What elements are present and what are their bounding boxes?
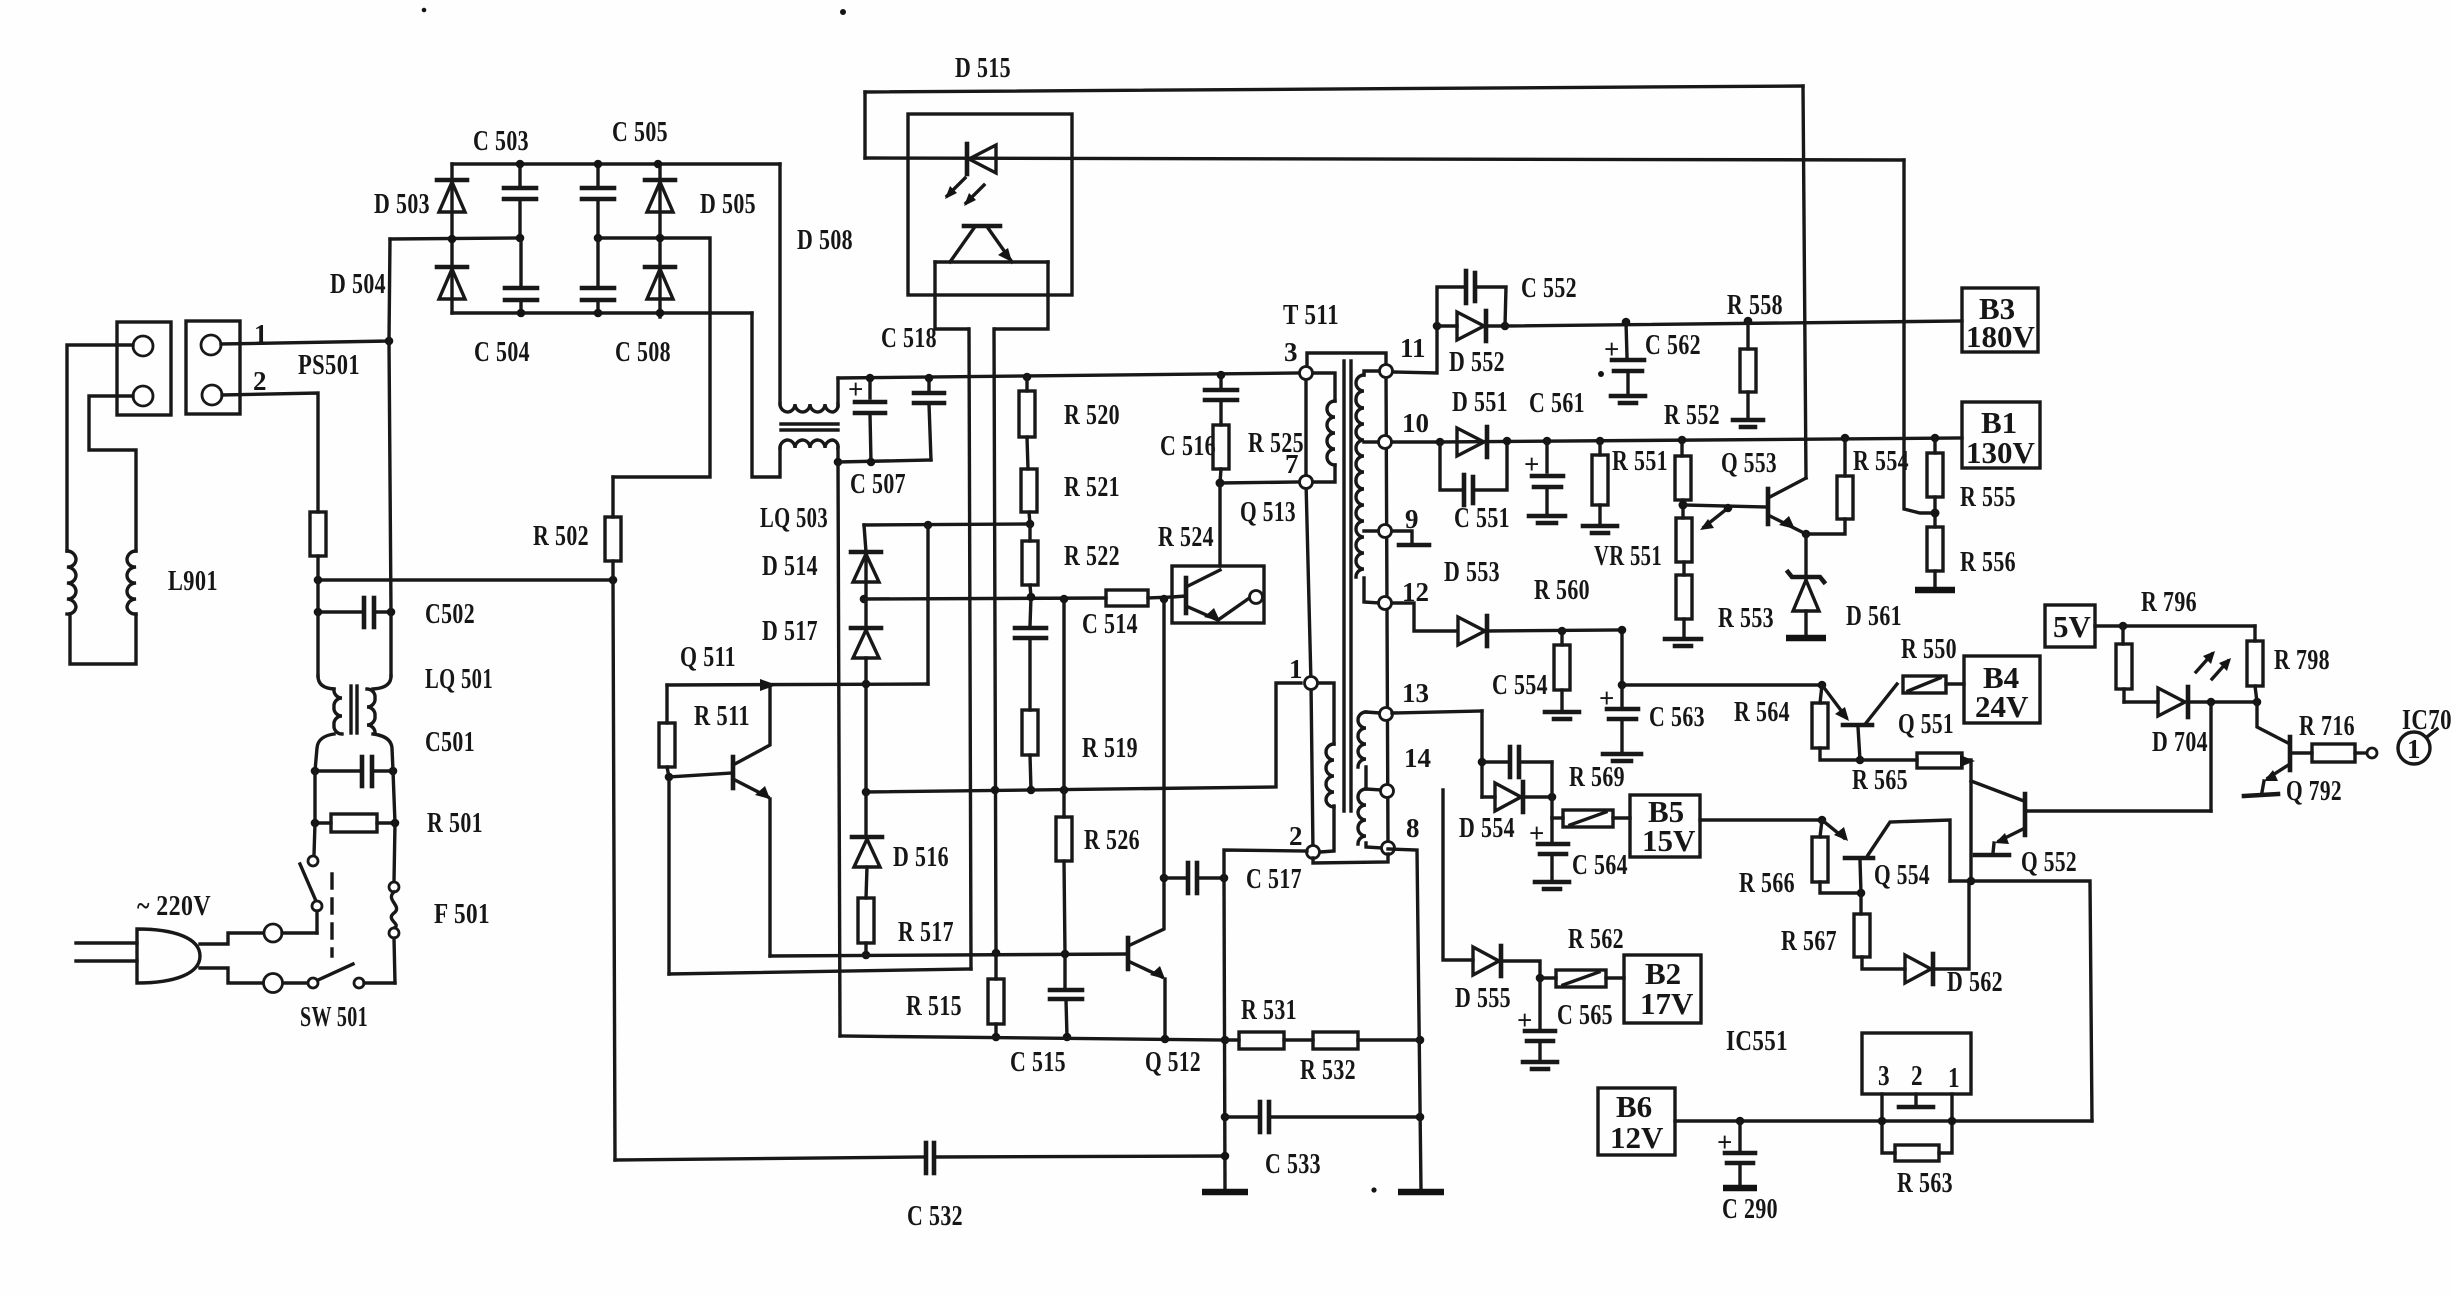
svg-text:2: 2 <box>1289 821 1303 851</box>
svg-text:C 552: C 552 <box>1521 272 1577 304</box>
wire pin13 out <box>1392 711 1482 713</box>
capacitor C563 electrolytic <box>1599 683 1641 761</box>
svg-text:C 514: C 514 <box>1082 608 1138 640</box>
svg-text:13: 13 <box>1402 678 1429 708</box>
svg-text:R 515: R 515 <box>906 990 962 1022</box>
resistor R502 <box>605 517 621 561</box>
svg-text:D 514: D 514 <box>762 550 818 582</box>
node D514/D517 <box>860 595 869 604</box>
IC551 box <box>1862 1033 1971 1094</box>
svg-text:D 504: D 504 <box>330 268 386 300</box>
wire C502 left down to LQ501 <box>316 612 319 676</box>
node pin7 feed <box>1216 479 1225 488</box>
svg-text:C 516: C 516 <box>1160 430 1216 462</box>
svg-text:17V: 17V <box>1640 986 1694 1021</box>
svg-text:R 569: R 569 <box>1569 761 1625 793</box>
svg-text:12V: 12V <box>1610 1120 1664 1155</box>
wire pin11 out <box>1393 326 1437 373</box>
svg-text:R 796: R 796 <box>2141 586 2197 618</box>
5V top line <box>2095 624 2255 627</box>
svg-text:R 532: R 532 <box>1300 1054 1356 1086</box>
fusible resistor R569 <box>1552 810 1630 827</box>
vertical x1225 <box>1224 878 1225 1190</box>
svg-text:C 561: C 561 <box>1529 387 1585 419</box>
line filter LQ501 <box>315 676 393 771</box>
svg-text:C 562: C 562 <box>1645 329 1701 361</box>
svg-text:D 552: D 552 <box>1449 346 1505 378</box>
transistor Q512 <box>1128 599 1169 1043</box>
wire corner to D514 <box>864 525 866 552</box>
capacitor C516 <box>1205 375 1237 425</box>
svg-text:D 555: D 555 <box>1455 982 1511 1014</box>
LED D704 <box>2124 687 2261 717</box>
svg-text:R 566: R 566 <box>1739 867 1795 899</box>
terminal circled 1 <box>2398 729 2437 764</box>
IC551 legs <box>1878 1094 1957 1153</box>
resistor R524 (horizontal) <box>1106 590 1148 606</box>
resistor R526 <box>1056 790 1072 958</box>
wire node to IC551 drop <box>1950 881 2092 1121</box>
svg-text:D 503: D 503 <box>374 188 430 220</box>
svg-text:8: 8 <box>1406 813 1420 843</box>
svg-text:C 504: C 504 <box>474 336 530 368</box>
resistor R556 <box>1915 527 1955 590</box>
wire bus corner down <box>863 92 866 158</box>
line B (base feedback y970) <box>669 969 971 974</box>
capacitor over D554 <box>1482 747 1552 777</box>
svg-text:R 524: R 524 <box>1158 521 1214 553</box>
diode D554 <box>1482 782 1556 812</box>
resistor R522 <box>1022 524 1038 597</box>
svg-text:C 564: C 564 <box>1572 849 1628 881</box>
svg-text:14: 14 <box>1404 743 1431 773</box>
wire C501 to R501 right <box>393 771 395 823</box>
transistor Q513 box <box>1172 566 1264 623</box>
transistor Q552 <box>1971 781 2211 855</box>
svg-text:Q 554: Q 554 <box>1874 859 1930 891</box>
node Q554 collector rail <box>1967 877 1976 886</box>
svg-text:VR 551: VR 551 <box>1594 540 1662 572</box>
pin 9 <box>1379 525 1392 538</box>
node dot at R502 bottom <box>609 576 618 585</box>
node R796 top <box>2119 622 2128 631</box>
resistor R565 <box>1860 753 1975 768</box>
diode D504 <box>437 239 467 313</box>
wire C507 bottom rail <box>838 460 931 462</box>
pin 11 <box>1380 365 1393 378</box>
capacitor C554 <box>1545 631 1579 719</box>
node LQ503 out <box>834 458 843 467</box>
diode D551 <box>1457 427 1487 457</box>
box B3 <box>1962 288 2038 354</box>
wire to pin 7 <box>1220 482 1299 483</box>
svg-text:5V: 5V <box>2053 609 2092 644</box>
resistor R563 <box>1895 1145 1939 1161</box>
pin 13 <box>1380 708 1393 721</box>
diode D553 <box>1458 616 1622 646</box>
wire down to C502 <box>316 580 319 612</box>
svg-text:R 565: R 565 <box>1852 764 1908 796</box>
long line from LED bus down <box>1904 160 1935 513</box>
B5 bus to Q554 <box>1700 818 1822 821</box>
svg-text:C502: C502 <box>425 598 475 630</box>
svg-text:C501: C501 <box>425 726 475 758</box>
svg-text:1: 1 <box>2407 734 2421 764</box>
transistor Q553 <box>1683 478 1845 538</box>
svg-text:D 508: D 508 <box>797 224 853 256</box>
T511 primary winding (3-7) <box>1311 373 1335 482</box>
svg-text:R 519: R 519 <box>1082 732 1138 764</box>
resistor R558 <box>1733 317 1763 427</box>
svg-text:Q 553: Q 553 <box>1721 447 1777 479</box>
resistor R716 <box>2312 744 2377 762</box>
line y684 (Q511 collector line) <box>667 684 928 685</box>
T511 secondary winding (11-10-9-12) <box>1356 371 1380 603</box>
capacitor C501 <box>311 757 398 786</box>
svg-text:SW 501: SW 501 <box>300 1001 368 1033</box>
wire R502 top <box>611 477 614 517</box>
capacitor C290 electrolytic <box>1717 1117 1757 1188</box>
ground at pin 9 <box>1392 531 1429 545</box>
node leg2 on y790 <box>991 786 1000 795</box>
svg-text:Q 513: Q 513 <box>1240 496 1296 528</box>
LED feedback line <box>865 158 1904 160</box>
svg-text:R 564: R 564 <box>1734 696 1790 728</box>
svg-text:1: 1 <box>1289 654 1303 684</box>
capacitor C552 bypass loop <box>1437 271 1506 326</box>
junction arrow on y684 <box>760 679 777 691</box>
node line to R502 <box>318 578 613 581</box>
node bus B at R520 <box>1023 373 1032 382</box>
bridge bottom bus <box>452 311 752 314</box>
zener D561 <box>1786 534 1826 638</box>
transistor Q551 <box>1818 681 1897 760</box>
long left vertical to C532 <box>613 580 615 1160</box>
fuse F501 <box>389 823 399 983</box>
line A (emitter/base rail y955) <box>770 954 1127 956</box>
pin 8 <box>1382 842 1395 855</box>
degaussing coil L901 <box>67 551 136 664</box>
diode D503 <box>437 164 467 239</box>
fusible resistor R550 <box>1903 676 1964 693</box>
wire LQ503 bottom right down <box>836 448 839 462</box>
wire PS501 pin1 to bridge rail <box>221 341 389 344</box>
wire pin13 down leg <box>1480 711 1483 797</box>
top feedback bus <box>865 86 1803 92</box>
svg-text:2: 2 <box>1911 1060 1923 1092</box>
svg-text:T 511: T 511 <box>1283 299 1339 331</box>
resistor R520 <box>1019 377 1035 469</box>
wire L901 top loop <box>67 345 133 551</box>
svg-text:R 562: R 562 <box>1568 923 1624 955</box>
wire bottom bus down to LQ503 <box>752 313 780 477</box>
resistor R796 <box>2116 626 2132 702</box>
phototransistor <box>950 226 1012 262</box>
long feedback line to top bus <box>1803 86 1806 478</box>
svg-text:C 551: C 551 <box>1454 502 1510 534</box>
resistor R553 <box>1665 562 1701 646</box>
line C (ground return y1037) <box>840 1036 1225 1040</box>
svg-text:D 704: D 704 <box>2152 726 2208 758</box>
resistor R521 <box>1021 469 1037 524</box>
vertical x928 <box>926 525 929 684</box>
svg-text:R 555: R 555 <box>1960 481 2016 513</box>
pin 1 <box>1305 677 1318 690</box>
svg-text:R 551: R 551 <box>1612 445 1668 477</box>
resistor R551 <box>1583 437 1617 533</box>
diode D552 <box>1437 311 1505 341</box>
pin 14 <box>1381 785 1394 798</box>
optocoupler box <box>908 114 1072 295</box>
connector block PS501 <box>186 321 240 414</box>
svg-text:R 511: R 511 <box>694 700 750 732</box>
bridge mid-left rail <box>390 238 521 239</box>
switch SW501 pole 1 <box>300 856 322 933</box>
resistor R554 <box>1837 434 1853 519</box>
resistor R798 <box>2247 626 2263 702</box>
svg-text:R 520: R 520 <box>1064 399 1120 431</box>
svg-text:R 522: R 522 <box>1064 540 1120 572</box>
svg-text:R 554: R 554 <box>1853 445 1909 477</box>
capacitor C515 <box>1050 954 1082 1041</box>
node D552 cathode <box>1501 322 1510 331</box>
svg-text:Q 551: Q 551 <box>1898 708 1954 740</box>
wire R524 to Q513 box <box>1148 597 1172 598</box>
diode D517 <box>851 599 881 792</box>
diode D555 <box>1473 946 1544 982</box>
pin 3 <box>1300 367 1313 380</box>
node cap top <box>1478 758 1487 767</box>
svg-text:Q 792: Q 792 <box>2286 775 2342 807</box>
svg-text:R 560: R 560 <box>1534 574 1590 606</box>
svg-text:15V: 15V <box>1642 823 1696 858</box>
resistor R519 <box>1022 710 1038 790</box>
line y525 (D514 top) <box>864 524 1031 525</box>
capacitor C502 <box>314 598 396 627</box>
svg-text:C 532: C 532 <box>907 1200 963 1232</box>
capacitor C507 electrolytic <box>848 374 885 467</box>
potentiometer VR551 <box>1676 508 1728 562</box>
svg-text:C 554: C 554 <box>1492 669 1548 701</box>
svg-text:7: 7 <box>1285 449 1299 479</box>
capacitor C508 <box>582 238 614 317</box>
svg-text:Q 512: Q 512 <box>1145 1046 1201 1078</box>
node x928 top <box>924 521 933 530</box>
wire mains right vertical (PS1 node down) <box>389 239 391 676</box>
svg-text:R 526: R 526 <box>1084 824 1140 856</box>
T511 top bridge <box>1307 353 1386 373</box>
B3 rail <box>1505 321 1962 326</box>
node C563 <box>1618 681 1627 690</box>
svg-text:D 505: D 505 <box>700 188 756 220</box>
svg-text:D 515: D 515 <box>955 52 1011 84</box>
node R519 bottom <box>1027 786 1036 795</box>
svg-text:R 550: R 550 <box>1901 633 1957 665</box>
ground under x1225 <box>1202 1189 1248 1196</box>
T511 feedback winding (1-2) <box>1315 683 1334 852</box>
svg-text:C 290: C 290 <box>1722 1193 1778 1225</box>
svg-text:+: + <box>848 374 863 404</box>
transistor Q792 <box>2244 702 2312 796</box>
diode D562 <box>1905 881 1969 984</box>
wire pin2 to C517 node <box>1224 850 1307 878</box>
svg-text:D 553: D 553 <box>1444 556 1500 588</box>
node PS501-1 <box>385 337 394 346</box>
svg-text:C 505: C 505 <box>612 116 668 148</box>
T511 right pin rail <box>1386 371 1388 848</box>
svg-text:R 502: R 502 <box>533 520 589 552</box>
capacitor C532 <box>615 1143 1229 1173</box>
leg 2 of optocoupler <box>994 329 996 953</box>
svg-text:R 558: R 558 <box>1727 289 1783 321</box>
T511 secondary winding (13-14-8) <box>1358 712 1382 848</box>
transistor Q554 <box>1818 816 1950 893</box>
scan speck <box>422 8 427 13</box>
svg-text:C 565: C 565 <box>1557 999 1613 1031</box>
switch link dashes <box>330 874 333 956</box>
pedestal collar <box>935 262 1048 329</box>
svg-text:24V: 24V <box>1975 689 2029 724</box>
wire down into Q513 box <box>1218 483 1221 566</box>
wire top bus down to LQ503 <box>778 164 781 404</box>
svg-text:C 563: C 563 <box>1649 701 1705 733</box>
wire pin2 to pin8 U <box>1313 854 1388 863</box>
capacitor C514 <box>1015 597 1046 710</box>
wire Q511 base net down (x669) <box>667 777 670 974</box>
scan speck <box>840 9 846 15</box>
wire R502 to node <box>611 561 614 580</box>
capacitor C503 <box>504 160 536 243</box>
wire R501 left down to switch <box>314 823 315 855</box>
node x1064 on y599 <box>1060 595 1069 604</box>
big vertical rail from LQ503 node down <box>838 462 840 1036</box>
resistor R532 <box>1313 1032 1420 1049</box>
svg-text:C 533: C 533 <box>1265 1148 1321 1180</box>
node R532 right <box>1416 1036 1425 1045</box>
pin 12 <box>1379 597 1392 610</box>
resistor (inrush) on pin2 line <box>310 512 326 556</box>
choke LQ503 <box>780 404 838 448</box>
T511 core <box>1344 361 1351 811</box>
fusible resistor R562 <box>1540 970 1624 987</box>
svg-text:R 563: R 563 <box>1897 1167 1953 1199</box>
resistor R567 <box>1854 893 1905 969</box>
pin 10 <box>1379 436 1392 449</box>
resistor R501 <box>311 814 400 832</box>
svg-text:R 501: R 501 <box>427 807 483 839</box>
svg-text:D 551: D 551 <box>1452 386 1508 418</box>
bridge mid-right rail <box>596 238 710 477</box>
svg-text:130V: 130V <box>1966 435 2036 470</box>
resistor R525 <box>1213 425 1229 483</box>
diode D508 <box>645 234 675 318</box>
box B2 <box>1624 955 1701 1023</box>
svg-text:C 508: C 508 <box>615 336 671 368</box>
AC plug <box>76 924 317 993</box>
node top bus D505 <box>654 160 663 169</box>
wire D704 node down to Q552 line <box>2209 702 2212 811</box>
svg-text:Q 511: Q 511 <box>680 641 736 673</box>
capacitor C517 <box>1160 863 1229 893</box>
capacitor C565 electrolytic <box>1517 978 1557 1069</box>
node x1164 on y599 <box>1160 595 1169 604</box>
connector block left <box>117 322 171 415</box>
node D552 anode <box>1433 322 1442 331</box>
svg-text:3: 3 <box>1878 1060 1890 1092</box>
svg-text:180V: 180V <box>1966 319 2036 354</box>
svg-text:Q 552: Q 552 <box>2021 846 2077 878</box>
vertical x1064 <box>1062 599 1065 790</box>
svg-text:11: 11 <box>1400 333 1426 363</box>
wire PS501 pin2 down <box>222 393 318 512</box>
svg-text:1: 1 <box>1948 1062 1960 1094</box>
svg-text:R 798: R 798 <box>2274 644 2330 676</box>
svg-text:C 518: C 518 <box>881 322 937 354</box>
node C554 top <box>1558 627 1567 636</box>
svg-text:R 552: R 552 <box>1664 399 1720 431</box>
node R517 bottom <box>862 951 871 960</box>
box B5 <box>1630 794 1700 858</box>
node dot left <box>314 576 323 585</box>
capacitor C505 <box>582 160 614 243</box>
svg-text:C 515: C 515 <box>1010 1046 1066 1078</box>
svg-text:C 517: C 517 <box>1246 863 1302 895</box>
scan speck <box>1598 371 1604 377</box>
vertical x1420 (pin8 net) <box>1388 849 1421 1190</box>
Q551 base bus <box>1622 683 1822 686</box>
svg-text:F 501: F 501 <box>434 898 490 930</box>
D704 emission arrows <box>2196 651 2231 679</box>
wire resistor to node <box>316 556 319 580</box>
svg-text:L901: L901 <box>168 565 218 597</box>
svg-text:R 567: R 567 <box>1781 925 1837 957</box>
bridge top bus <box>452 162 780 165</box>
LED of D515 <box>967 144 996 174</box>
resistor R555 <box>1927 434 1943 527</box>
wire C501 to R501 left <box>313 771 316 823</box>
pin 2 <box>1307 846 1320 859</box>
capacitor C562 electrolytic <box>1604 318 1645 403</box>
diode D516 <box>852 792 882 898</box>
svg-text:D 561: D 561 <box>1846 600 1902 632</box>
node D517 bottom on y684 <box>862 680 871 689</box>
svg-text:R 716: R 716 <box>2299 710 2355 742</box>
switch SW501 pole 2 <box>283 964 395 988</box>
box B1 <box>1962 402 2040 470</box>
wire pin12 out <box>1392 603 1457 631</box>
box B6 <box>1598 1088 1675 1155</box>
svg-text:R 521: R 521 <box>1064 471 1120 503</box>
box B4 <box>1964 656 2040 724</box>
capacitor C564 electrolytic <box>1529 818 1569 889</box>
resistor R552 <box>1675 436 1691 518</box>
transistor Q511 <box>659 685 770 956</box>
svg-text:R 531: R 531 <box>1241 994 1297 1026</box>
resistor R531 <box>1225 1032 1313 1049</box>
vertical from R565 <box>1969 760 1972 881</box>
T511 left pin rail <box>1306 373 1313 852</box>
main HV bus (B) <box>838 373 1300 378</box>
box 5V <box>2045 605 2095 647</box>
diode D505 <box>645 164 675 238</box>
leg 1 of optocoupler <box>969 329 971 969</box>
svg-text:LQ 503: LQ 503 <box>760 502 828 534</box>
ground under x1420 <box>1398 1189 1444 1196</box>
wire D553 node down <box>1620 630 1623 685</box>
wire cap loop right down <box>1550 762 1553 818</box>
svg-text:C 503: C 503 <box>473 125 529 157</box>
svg-text:R 517: R 517 <box>898 916 954 948</box>
